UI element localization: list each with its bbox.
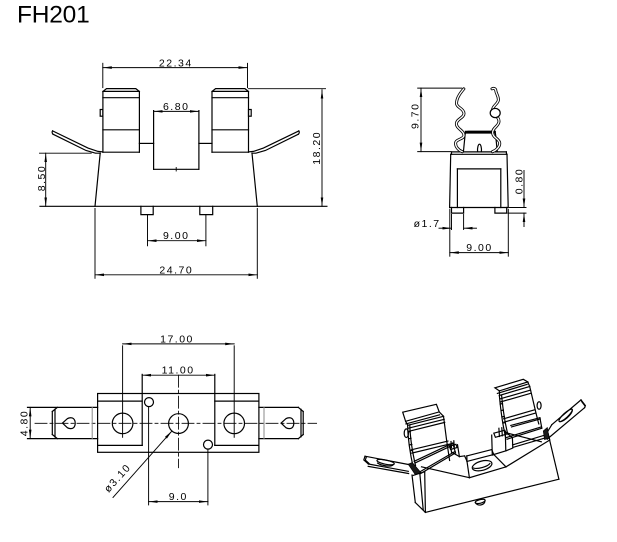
- 3d view: left tower right edge: [444, 416, 450, 460]
- 3d view: left wing base flap: [408, 463, 421, 475]
- svg-text:FH201: FH201: [17, 2, 90, 29]
- 3d view: bottom pin: [475, 498, 486, 505]
- 3d view: left clip bottom flange: [414, 443, 455, 474]
- svg-text:ø3.10: ø3.10: [102, 461, 134, 495]
- dimension 22.34: [103, 57, 248, 87]
- front view: right wing: [249, 131, 300, 153]
- dimension 9.00 side: [450, 210, 509, 257]
- 3d view: center boss: [465, 450, 506, 478]
- svg-text:9.00: 9.00: [163, 230, 189, 242]
- 3d view: left wing: [364, 456, 411, 473]
- front view: body trapezoid: [95, 153, 257, 206]
- side view: clip dimple: [478, 144, 482, 152]
- 3d view: left tower side oval: [404, 429, 408, 438]
- svg-text:24.70: 24.70: [159, 264, 193, 276]
- front view: central block: [154, 111, 199, 171]
- plan view: left hole: [112, 413, 133, 434]
- svg-text:9.00: 9.00: [466, 242, 492, 254]
- plan view: vertical centerline: [178, 375, 180, 468]
- front view: left tower cap: [103, 89, 139, 98]
- 3d view: left tower left edge band: [408, 425, 416, 468]
- svg-text:11.00: 11.00: [162, 364, 195, 376]
- side view: body outline: [450, 152, 509, 208]
- front view: right pin: [200, 206, 213, 214]
- plan view: hole centermark left + 17.00 extension: [122, 346, 124, 438]
- 3d view: right clip bottom flange: [506, 418, 542, 440]
- plan view: right terminal dimple: [281, 418, 294, 429]
- 3d view: right tower lid: [499, 382, 529, 396]
- dimension 0.80: [508, 168, 526, 227]
- dimension 17.00: [123, 333, 235, 345]
- svg-text:22.34: 22.34: [159, 57, 193, 69]
- svg-text:6.80: 6.80: [163, 101, 189, 113]
- front view: right tower side tab: [249, 110, 252, 117]
- dimension 6.80: [154, 101, 199, 113]
- side view: left spring: [456, 89, 464, 152]
- svg-text:0.80: 0.80: [514, 168, 526, 194]
- 3d view: left tower back plate: [403, 404, 440, 424]
- 3d view: right tower left edge band: [499, 396, 508, 438]
- dimension 9.0 plan: [149, 407, 208, 505]
- 3d view: right tower right edge: [530, 387, 539, 424]
- side view: spring contact ball: [490, 108, 500, 117]
- title FH201: [17, 2, 90, 29]
- 3d view: right tower side oval: [537, 402, 541, 410]
- 3d view: left tower bands: [409, 419, 449, 453]
- svg-text:8.50: 8.50: [36, 165, 48, 191]
- plan view: body outline: [98, 394, 259, 453]
- 3d view: base back edge under right wing: [505, 433, 541, 442]
- dimension 11.00: [142, 364, 215, 376]
- dimension dia 1.7: [414, 215, 477, 231]
- 3d view: right tower bands: [500, 390, 535, 422]
- dimension dia 3.10 leader: [102, 431, 172, 498]
- 3d view: base top-left edge: [422, 467, 470, 478]
- svg-text:9.0: 9.0: [169, 491, 188, 503]
- svg-text:4.80: 4.80: [18, 410, 30, 436]
- dimension 8.50: [36, 153, 91, 206]
- plan view: right terminal: [259, 407, 303, 438]
- 3d view: left tower lid: [406, 412, 444, 425]
- front view: left wing: [52, 131, 103, 153]
- dimension 18.20: [249, 89, 326, 207]
- plan view: horizontal centerline: [35, 422, 317, 424]
- dimension 9.00 front: [148, 215, 206, 246]
- 3d view: base outline: [425, 434, 559, 512]
- front view: left pin: [141, 206, 153, 214]
- plan view: small hole bottom-right: [204, 440, 213, 449]
- front view: connector ledges: [139, 142, 212, 144]
- plan view: small hole top-left: [145, 398, 154, 407]
- svg-text:18.20: 18.20: [311, 131, 323, 165]
- 3d view: right wing oval hole: [558, 408, 574, 423]
- 3d view: left socket notch: [449, 441, 464, 457]
- svg-text:17.00: 17.00: [160, 333, 194, 345]
- dimension 24.70: [95, 209, 257, 279]
- 3d view: center boss oval hole: [471, 459, 493, 473]
- plan view: left terminal: [28, 407, 98, 438]
- side view: right foot: [495, 208, 507, 214]
- plan view: center hole: [169, 414, 189, 434]
- side view: inner window: [457, 169, 500, 208]
- side view: left foot: [452, 208, 464, 214]
- front view: right tower cap: [212, 89, 249, 98]
- front view: left tower body: [103, 92, 139, 153]
- front view: left tower side tab: [100, 110, 103, 117]
- plan view: right hole: [224, 413, 245, 434]
- 3d view: right wing: [545, 400, 586, 439]
- side view: fuse clip: [463, 131, 497, 152]
- front view: right tower body: [212, 92, 249, 153]
- plan view: clip block edges + 11.00 extensions: [142, 374, 215, 445]
- 3d view: left foot slab: [412, 472, 425, 513]
- dimension 9.70: [410, 88, 462, 152]
- 3d view: right socket: [492, 428, 513, 455]
- svg-text:ø1.7: ø1.7: [414, 218, 441, 230]
- 3d view: left wing oval hole: [377, 458, 395, 466]
- plan view: hole centermark right + 17.00 extension: [233, 346, 235, 438]
- front view: bottom line: [40, 205, 327, 207]
- 3d view: right wing base flap: [543, 428, 549, 440]
- 3d view: right tower back plate: [495, 379, 528, 393]
- plan view: left terminal dimple: [63, 418, 76, 429]
- dimension 4.80: [18, 407, 30, 438]
- side view: right spring: [492, 88, 500, 151]
- svg-text:9.70: 9.70: [410, 103, 422, 129]
